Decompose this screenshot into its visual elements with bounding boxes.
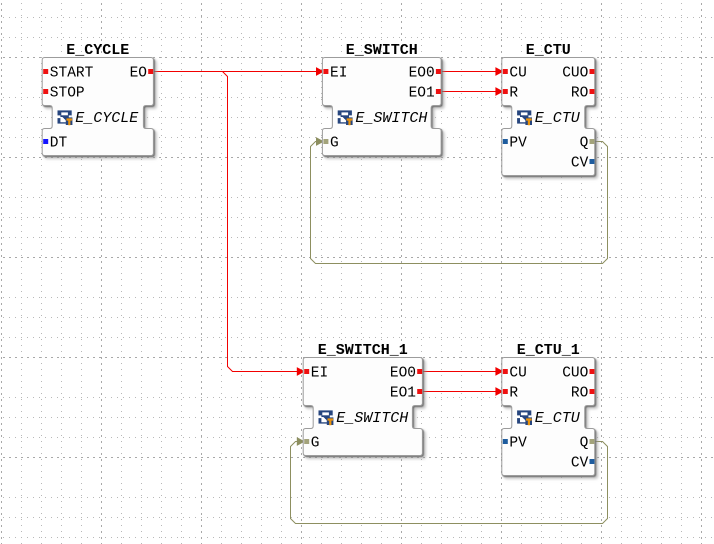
E_SWITCH FB type icon bbox=[337, 110, 352, 125]
E_CTU_1 FB type icon bbox=[517, 410, 532, 425]
E_CYCLE event input pin STOP bbox=[43, 86, 84, 102]
svg-text:E_SWITCH: E_SWITCH bbox=[346, 42, 418, 59]
E_CTU_1 event output pin RO bbox=[571, 386, 595, 402]
svg-text:R: R bbox=[509, 86, 518, 102]
function block E_CTU (E_CTU) bbox=[502, 42, 595, 176]
svg-text:EI: EI bbox=[330, 66, 347, 82]
svg-text:EO0: EO0 bbox=[409, 66, 435, 82]
svg-text:E_SWITCH_1: E_SWITCH_1 bbox=[318, 342, 408, 359]
svg-text:PV: PV bbox=[509, 136, 527, 152]
svg-text:Q: Q bbox=[580, 136, 589, 152]
E_CTU_1 event output pin CUO bbox=[562, 366, 594, 382]
E_CTU event output pin RO bbox=[571, 86, 595, 102]
svg-text:RO: RO bbox=[571, 86, 588, 102]
svg-text:DT: DT bbox=[50, 136, 68, 152]
function block E_SWITCH_1 (E_SWITCH) bbox=[303, 342, 422, 456]
wire: E_SWITCH_1.EO0 to E_CTU_1.CU bbox=[422, 371, 496, 373]
E_SWITCH_1 data input pin G bbox=[304, 436, 319, 452]
E_CTU_1 event input pin CU bbox=[503, 366, 527, 382]
E_CTU FB type icon bbox=[517, 110, 532, 125]
wire: E_SWITCH.EO1 to E_CTU.R bbox=[441, 91, 496, 93]
wire: E_SWITCH.EO0 to E_CTU.CU bbox=[441, 71, 496, 73]
svg-text:E_CTU: E_CTU bbox=[535, 110, 581, 127]
E_CTU event output pin CUO bbox=[562, 66, 594, 82]
E_SWITCH_1 FB type icon bbox=[318, 410, 333, 425]
function block E_CTU_1 (E_CTU) bbox=[502, 342, 595, 476]
E_SWITCH_1 event output pin EO0 bbox=[390, 366, 422, 382]
svg-text:RO: RO bbox=[571, 386, 588, 402]
E_CTU_1 data input pin PV bbox=[503, 436, 527, 452]
E_CTU body outline bbox=[502, 58, 595, 176]
E_CYCLE body outline bbox=[42, 58, 153, 156]
wire: E_SWITCH_1.EO1 to E_CTU_1.R bbox=[422, 391, 496, 393]
svg-text:E_CTU: E_CTU bbox=[526, 42, 571, 59]
svg-text:EO1: EO1 bbox=[390, 386, 416, 402]
E_CYCLE event input pin START bbox=[43, 66, 93, 82]
svg-text:E_CYCLE: E_CYCLE bbox=[75, 110, 139, 127]
E_SWITCH_1 event output pin EO1 bbox=[390, 386, 422, 402]
svg-text:CU: CU bbox=[509, 366, 526, 382]
function block E_CYCLE (E_CYCLE) bbox=[42, 42, 153, 156]
svg-text:E_SWITCH: E_SWITCH bbox=[336, 410, 408, 427]
E_SWITCH data input pin G bbox=[323, 136, 338, 152]
E_SWITCH event input pin EI bbox=[323, 66, 347, 82]
E_SWITCH event output pin EO0 bbox=[409, 66, 441, 82]
E_SWITCH body outline bbox=[322, 58, 441, 156]
svg-text:CV: CV bbox=[571, 456, 589, 472]
E_SWITCH_1 body outline bbox=[303, 358, 422, 456]
svg-text:PV: PV bbox=[509, 436, 527, 452]
E_CYCLE event output pin EO bbox=[130, 66, 154, 82]
svg-text:E_CTU_1: E_CTU_1 bbox=[517, 342, 580, 359]
E_CTU_1 event input pin R bbox=[503, 386, 519, 402]
svg-text:CUO: CUO bbox=[562, 366, 588, 382]
E_CYCLE data input pin DT bbox=[43, 136, 67, 152]
svg-text:R: R bbox=[509, 386, 518, 402]
E_SWITCH event output pin EO1 bbox=[409, 86, 441, 102]
svg-text:EI: EI bbox=[311, 366, 328, 382]
function block E_SWITCH (E_SWITCH) bbox=[322, 42, 441, 156]
E_CTU_1 body outline bbox=[502, 358, 595, 476]
E_CTU_1 data output pin CV bbox=[571, 456, 595, 472]
E_SWITCH_1 event input pin EI bbox=[304, 366, 328, 382]
svg-text:CU: CU bbox=[509, 66, 526, 82]
svg-text:CUO: CUO bbox=[562, 66, 588, 82]
svg-text:E_CYCLE: E_CYCLE bbox=[66, 42, 129, 59]
svg-text:START: START bbox=[50, 66, 94, 82]
E_CTU event input pin R bbox=[503, 86, 519, 102]
svg-text:EO1: EO1 bbox=[409, 86, 435, 102]
wire: E_CTU.Q feedback loop to E_SWITCH.G bbox=[311, 142, 608, 264]
wire: E_CYCLE.EO to E_SWITCH.EI bbox=[153, 71, 316, 73]
E_CTU event input pin CU bbox=[503, 66, 527, 82]
svg-text:Q: Q bbox=[580, 436, 589, 452]
svg-text:E_SWITCH: E_SWITCH bbox=[355, 110, 427, 127]
svg-text:CV: CV bbox=[571, 156, 589, 172]
E_CTU data input pin PV bbox=[503, 136, 527, 152]
svg-text:EO: EO bbox=[130, 66, 147, 82]
svg-text:E_CTU: E_CTU bbox=[535, 410, 581, 427]
wire: E_CTU_1.Q feedback loop to E_SWITCH_1.G bbox=[291, 442, 608, 524]
E_CTU data output pin CV bbox=[571, 156, 595, 172]
E_CYCLE FB type icon bbox=[57, 110, 72, 125]
E_CTU_1 data output pin Q bbox=[580, 436, 595, 452]
svg-text:G: G bbox=[311, 436, 320, 452]
svg-text:G: G bbox=[330, 136, 339, 152]
svg-text:STOP: STOP bbox=[50, 86, 85, 102]
svg-text:EO0: EO0 bbox=[390, 366, 416, 382]
wire: E_CYCLE.EO branch down to E_SWITCH_1.EI bbox=[223, 72, 298, 372]
E_CTU data output pin Q bbox=[580, 136, 595, 152]
